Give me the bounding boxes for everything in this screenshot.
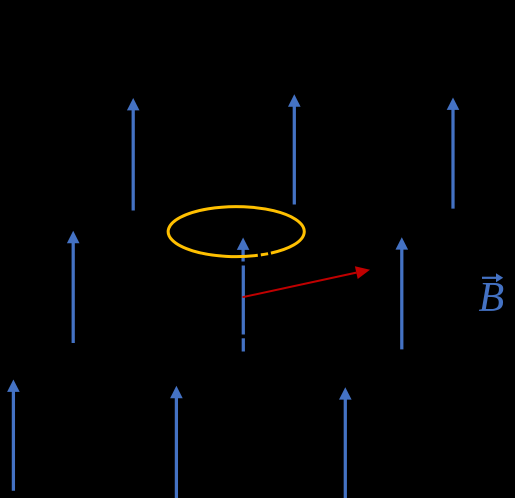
field line arrow middle-center (dashed through loop): [237, 238, 250, 352]
svg-text:B: B: [479, 275, 505, 321]
current loop dash segment in gap: [261, 254, 268, 255]
label B (vector): [479, 273, 505, 321]
field line arrow bottom-left: [7, 380, 20, 491]
field line arrow middle-left: [67, 231, 80, 343]
current loop (orange ellipse, main arc with gap at lower right): [168, 207, 304, 257]
field line arrow top-middle: [288, 94, 301, 204]
field line arrow top-right: [447, 98, 460, 209]
field line arrow bottom-right: [339, 387, 352, 498]
field line arrow top-left: [127, 98, 140, 211]
red radius/area vector arrow: [243, 266, 371, 297]
field line arrow middle-right: [396, 237, 409, 349]
field line arrow bottom-middle: [170, 386, 183, 498]
